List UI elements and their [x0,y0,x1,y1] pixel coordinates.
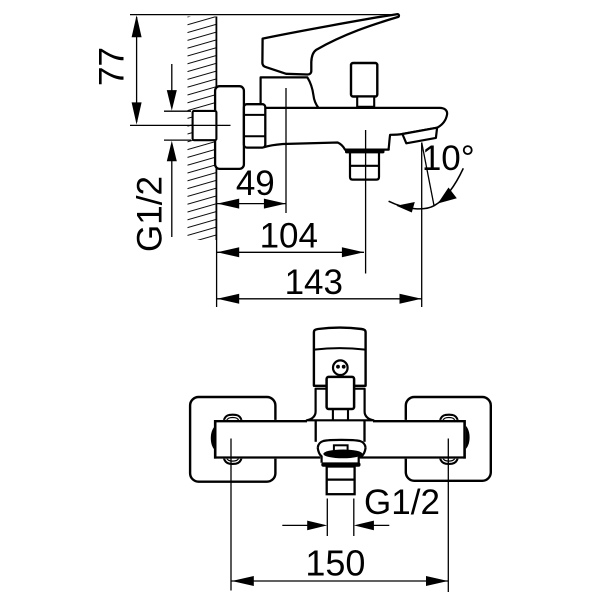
dim 49 arrow right [264,199,286,209]
right connection crescent [466,426,470,450]
diverter stem lines (front) [332,409,334,420]
left dome top inner [227,418,239,421]
hex nut facet lines [245,114,265,116]
temp indicator circle [333,360,348,375]
tube body fill [214,420,466,459]
spout tip extension (143) [421,143,423,308]
right dome bottom [440,458,458,464]
dim 143 arrow right [400,294,422,304]
cartridge cap under handle [261,77,319,108]
shower outlet thread line [350,165,379,167]
tube bottom edge left segment [214,456,320,458]
dim 49 arrow left [217,199,239,209]
G1/2 arrow pointing left [354,521,374,531]
cartridge housing (front) [307,389,374,421]
spout aerator tip [402,128,437,144]
tube bottom edge right segment [360,456,466,458]
outlet centerline extension (104) [365,130,367,274]
left centerline [230,439,232,591]
G1/2 lower extension line [164,139,191,141]
right dome bottom inner [443,458,455,461]
dim 49 line [217,203,286,205]
wall hatching [188,17,217,241]
svg-text:G1/2: G1/2 [130,176,169,252]
svg-text:10°: 10° [422,139,475,178]
spout bowl lip stroke [318,440,366,448]
hex nut (side) [244,104,265,147]
spout bowl left wall [318,448,322,463]
handle cap (front) [314,328,366,386]
G1/2 dim line lower [171,161,173,238]
right centerline [447,439,449,593]
G1/2 dim line left part [282,524,308,526]
faucet body (side) [264,108,447,150]
shower outlet flange bar [345,149,385,154]
svg-text:G1/2: G1/2 [364,483,440,522]
temp indicator dots [336,365,340,369]
diverter stem (side) [357,97,374,107]
G1/2 upper arrow (down) [167,90,177,111]
outlet pipe (front) [327,467,355,495]
right wall plate [406,397,491,481]
dim 104 arrow right [342,247,364,257]
outlet pipe shoulder line [327,479,355,481]
dim 150 arrow left [232,576,254,586]
dim 104 arrow left [217,247,239,257]
shower outlet cylinder (under body) [350,151,379,180]
spout nub [334,445,348,451]
spout bowl (front) white base [318,440,366,463]
pipe extension line left [326,499,328,537]
tube top edge left segment [214,420,307,422]
escutcheon flange (side) [215,86,244,169]
left dome bottom inner [227,458,239,461]
10 degree slant line [422,143,434,206]
svg-text:143: 143 [285,263,343,302]
dim 143 line [217,298,422,300]
dim 150 line [232,580,449,582]
dim 104 line [217,251,364,253]
G1/2 upper extension line [164,110,191,112]
handle cap inner line [314,348,365,349]
pipe extension line right [353,499,355,537]
wall face line [215,17,217,241]
dimension 77 arrow up [132,15,142,37]
wall face extension line (thin, below) [216,240,218,307]
left dome top [224,415,242,421]
dim 143 arrow left [217,294,239,304]
10 degree arc arrow [389,168,464,209]
left dome bottom [224,458,242,464]
left wall plate [190,397,275,482]
svg-text:77: 77 [93,47,132,86]
spout bowl right wall [359,448,366,463]
dim 150 arrow right [426,576,448,586]
lever handle [262,14,399,74]
G1/2 dim line right part [373,524,389,526]
right dome top inner [443,418,455,421]
dimension 77 line [136,17,138,122]
G1/2 lower arrow (up) [167,141,177,162]
arc arrowhead left [396,202,415,213]
tube top edge right segment [373,420,466,422]
column sides over tube [315,420,317,442]
wall pipe block G1/2 [193,111,217,140]
svg-text:49: 49 [236,164,275,203]
G1/2 dim line upper [171,64,173,91]
G1/2 arrow pointing right [307,521,327,531]
diverter knob (side) [351,63,377,97]
svg-text:104: 104 [260,216,318,255]
right dome top [440,415,458,421]
top reference line [130,14,398,16]
tube right end cap [463,420,466,459]
tube left end cap [214,420,217,459]
diverter knob (front) [327,377,355,409]
arc arrowhead right [438,188,457,204]
dimension 77 arrow down [132,102,142,124]
spout dark band [321,462,360,466]
svg-text:150: 150 [305,542,365,583]
cartridge centerline extension (49) [285,88,287,213]
left connection crescent [211,426,215,450]
spout dark opening [323,450,362,459]
centerline of valve [130,124,231,126]
